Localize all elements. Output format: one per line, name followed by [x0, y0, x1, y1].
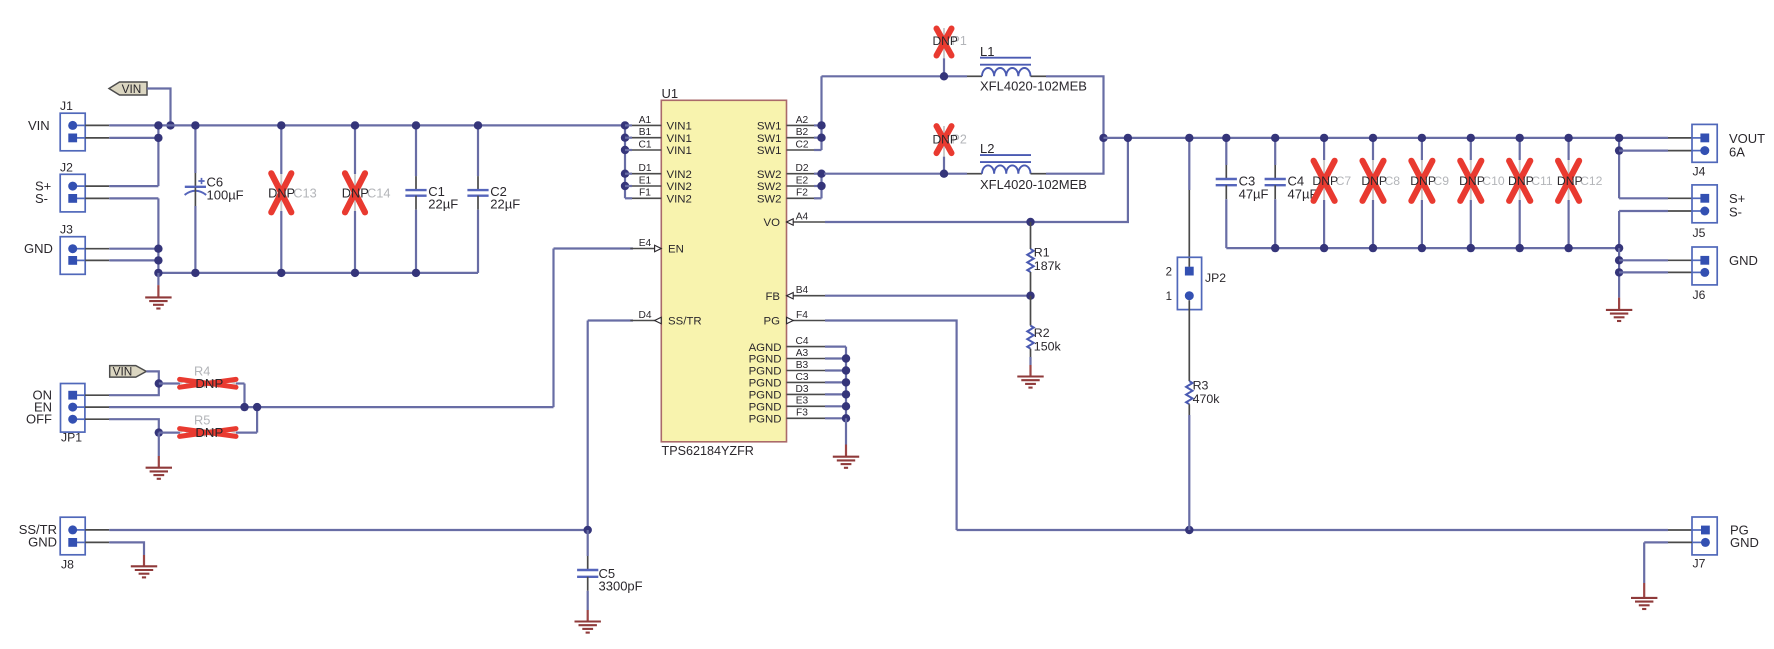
capacitor C14 (DNP) [342, 125, 391, 273]
ground J7 GND [1631, 598, 1657, 609]
wire output GND rail [1226, 247, 1619, 249]
U1 pin A3 PGND [749, 348, 825, 366]
node TP2 junction [940, 170, 948, 178]
svg-text:C3: C3 [795, 372, 808, 383]
wire J1 pin2 to junction [109, 137, 158, 139]
test point TP2 (DNP) [933, 126, 967, 174]
wire J3 pin2 stub [85, 259, 109, 261]
svg-text:E1: E1 [639, 175, 652, 186]
node J6 pin1 junction [1615, 256, 1623, 264]
svg-text:A3: A3 [796, 348, 809, 359]
node C4 bottom [1271, 244, 1279, 252]
node J3 pin2 junction [154, 256, 162, 264]
svg-text:B3: B3 [796, 360, 809, 371]
wire U1 VIN pin link y=186.0 [625, 185, 632, 187]
svg-text:DNP: DNP [1410, 174, 1436, 188]
node C11 bottom [1516, 244, 1524, 252]
wire J5 S+ stub [1668, 197, 1692, 199]
U1 pin A2 SW1 [757, 115, 818, 133]
node C11 top [1516, 134, 1524, 142]
node R1 top junction [1026, 218, 1034, 226]
svg-text:DNP: DNP [933, 133, 958, 147]
wire SW pin link y=125.4 [814, 124, 822, 126]
svg-text:VIN1: VIN1 [667, 145, 692, 157]
node J1 pin2 junction [154, 134, 162, 142]
node VIN flag junction [166, 121, 174, 129]
wire J2 S- stub [85, 197, 109, 199]
wire PGND pin link y=418.3 [825, 417, 846, 419]
wire PGND pin link y=382.4 [825, 381, 846, 383]
wire OFF to R5 node [109, 419, 159, 432]
node R5/EN junction [253, 403, 261, 411]
node J4 pin2 junction [1615, 146, 1623, 154]
wire L1 to VOUT node [1046, 76, 1104, 138]
svg-text:C11: C11 [1531, 174, 1553, 188]
svg-text:DNP: DNP [1312, 174, 1338, 188]
svg-text:6A: 6A [1729, 144, 1745, 159]
wire PG rail stub to J7 [1668, 529, 1692, 531]
wire PGND pin link y=406.3 [825, 405, 846, 407]
wire GND chain vertical [1618, 248, 1620, 298]
node OFF/R5/gnd junction [155, 428, 163, 436]
wire EN row [109, 406, 554, 408]
capacitor C4 47µF [1265, 138, 1318, 248]
svg-text:U1: U1 [662, 86, 679, 101]
wire VIN flag to bus [147, 89, 171, 126]
node C6 top [191, 121, 199, 129]
wire J8 GND to ground [109, 542, 144, 555]
wire J7 GND stub [1668, 541, 1692, 543]
svg-text:150k: 150k [1034, 339, 1062, 353]
wire SS/TR rail [109, 529, 588, 531]
svg-text:C12: C12 [1580, 174, 1603, 188]
svg-text:XFL4020-102MEB: XFL4020-102MEB [980, 78, 1087, 93]
wire R4 to EN row [243, 384, 245, 408]
U1 pin E2 SW2 [757, 175, 818, 193]
svg-text:C13: C13 [293, 186, 316, 201]
wire R5 to EN row [256, 407, 258, 433]
svg-text:DNP: DNP [342, 186, 369, 201]
svg-text:E4: E4 [639, 238, 652, 249]
wire J1 pin1 stub [85, 124, 109, 126]
wire J4 pin2 row [1619, 150, 1668, 152]
wire PGND pin link y=358.5 [825, 357, 846, 359]
node C10 bottom [1467, 244, 1475, 252]
resistor R1 187k [1027, 222, 1061, 296]
capacitor C3 47µF [1216, 138, 1269, 248]
node TP1 junction [940, 72, 948, 80]
node J6 pin2 junction [1615, 268, 1623, 276]
svg-text:B2: B2 [796, 127, 809, 138]
capacitor C12 (DNP) [1557, 138, 1603, 248]
svg-text:C10: C10 [1482, 174, 1505, 188]
node C12 bottom [1564, 244, 1572, 252]
connector J8 [60, 517, 85, 571]
capacitor C13 (DNP) [268, 125, 317, 273]
svg-text:VIN: VIN [122, 82, 142, 96]
svg-text:F4: F4 [796, 310, 808, 321]
svg-text:S-: S- [1729, 205, 1742, 220]
svg-text:PGND: PGND [749, 366, 782, 378]
svg-text:47µF: 47µF [1239, 186, 1269, 201]
svg-text:187k: 187k [1034, 259, 1062, 273]
resistor R4 (DNP) [159, 363, 245, 390]
node R3 bottom junction [1185, 526, 1193, 534]
svg-text:D1: D1 [638, 163, 651, 174]
U1 pin E4 EN [630, 238, 684, 256]
wire JP1 OFF stub [85, 418, 109, 420]
wire J8 GND stub [85, 541, 109, 543]
wire SW pin link y=137.7 [814, 137, 822, 139]
wire J3 pin1 stub [85, 248, 109, 250]
U1 pin C1 VIN1 [630, 139, 692, 157]
node PGND junction y=406.3 [842, 402, 850, 410]
wire PGND vertical [845, 347, 847, 419]
svg-text:OFF: OFF [26, 412, 52, 427]
U1 pin C4 AGND [749, 336, 825, 354]
svg-text:SW2: SW2 [757, 181, 782, 193]
node C6 bottom [191, 269, 199, 277]
U1 pin F3 PGND [749, 408, 825, 426]
capacitor C2 22µF [467, 125, 520, 273]
node VOUT inductor junction [1099, 134, 1107, 142]
svg-text:DNP: DNP [1361, 174, 1387, 188]
svg-text:22µF: 22µF [490, 197, 520, 212]
svg-text:E3: E3 [796, 396, 809, 407]
node VO loop junction [1124, 134, 1132, 142]
connector J4 [1692, 124, 1717, 178]
svg-text:S-: S- [35, 191, 48, 206]
svg-text:J4: J4 [1693, 165, 1706, 179]
wire EN net to U1 [554, 247, 634, 249]
wire J5 S- stub [1668, 210, 1692, 212]
svg-text:J1: J1 [60, 99, 73, 113]
svg-text:GND: GND [1730, 535, 1759, 550]
capacitor C7 (DNP) [1312, 138, 1351, 248]
svg-text:A2: A2 [796, 115, 809, 126]
wire J3 pin2 [109, 259, 158, 261]
svg-text:3300pF: 3300pF [599, 578, 643, 593]
connector J2 [60, 160, 85, 212]
U1 pin D2 SW2 [757, 163, 818, 181]
svg-text:A4: A4 [796, 211, 809, 222]
svg-text:F2: F2 [796, 188, 808, 199]
wire PG rail [957, 529, 1668, 531]
svg-text:C4: C4 [795, 336, 808, 347]
svg-text:SW1: SW1 [757, 145, 782, 157]
node C14 bottom [351, 269, 359, 277]
U1 pin C3 PGND [749, 372, 825, 390]
ground J8 GND [131, 566, 157, 577]
wire VIN-S+ vertical [157, 125, 159, 186]
connector J6 [1692, 247, 1717, 302]
U1 pin D4 SS/TR [630, 310, 701, 328]
svg-text:2: 2 [1166, 266, 1172, 278]
wire ON to VIN node [109, 384, 159, 396]
node C13 top [277, 121, 285, 129]
wire S- / GND vertical [157, 198, 159, 273]
wire JP1 ON stub [85, 394, 109, 396]
connector J7 [1692, 517, 1717, 571]
wire SW1 rail to L1 [822, 75, 968, 77]
wire VO sense loop [825, 138, 1128, 222]
ground R2 GND [1017, 377, 1043, 388]
svg-text:DNP: DNP [1459, 174, 1485, 188]
svg-text:22µF: 22µF [428, 197, 458, 212]
node C12 top [1564, 134, 1572, 142]
wire J6 pin2 row [1619, 271, 1668, 273]
svg-text:AGND: AGND [749, 342, 782, 354]
node SW1 junction y=125.4 [817, 121, 825, 129]
svg-text:VIN2: VIN2 [667, 194, 692, 206]
ground input GND [145, 297, 171, 308]
node VIN bus / sense junction [154, 121, 162, 129]
node C9 top [1418, 134, 1426, 142]
wire U1 VIN pin link y=173.7 [625, 173, 632, 175]
svg-text:R1: R1 [1034, 246, 1050, 260]
node VIN/R4/ON junction [155, 379, 163, 387]
inductor L1 XFL4020-102MEB [967, 44, 1087, 93]
wire J2 S+ stub [85, 185, 109, 187]
test point TP1 (DNP) [933, 28, 967, 76]
node C1 bottom [412, 269, 420, 277]
node FB junction [1026, 292, 1034, 300]
wire PGND pin link y=346.6 [825, 346, 846, 348]
svg-text:J5: J5 [1693, 226, 1706, 240]
resistor R5 (DNP) [159, 413, 257, 441]
wire PGND pin link y=370.5 [825, 369, 846, 371]
node U1 VIN pin junction y=173.7 [621, 170, 629, 178]
wire J3 pin1 [109, 248, 158, 250]
svg-text:PGND: PGND [749, 378, 782, 390]
wire U1 VIN vertical [624, 125, 626, 198]
wire L2 to VOUT node [1046, 138, 1104, 174]
net label VIN (bottom flag) [110, 365, 147, 379]
node C4 top [1271, 134, 1279, 142]
node C7 bottom [1320, 244, 1328, 252]
svg-text:L2: L2 [980, 141, 994, 156]
wire SS/TR to U1 pin [588, 319, 633, 321]
svg-text:A1: A1 [639, 115, 652, 126]
node C8 top [1369, 134, 1377, 142]
svg-text:J3: J3 [60, 223, 73, 237]
wire J6 pin1 stub [1668, 259, 1692, 261]
U1 pin C2 SW1 [757, 139, 818, 157]
U1 pin B3 PGND [749, 360, 825, 378]
svg-text:VIN1: VIN1 [667, 133, 692, 145]
svg-text:C1: C1 [638, 139, 651, 150]
connector JP2 [1166, 257, 1227, 309]
wire ground stub (input) [157, 273, 159, 285]
capacitor C6 [185, 125, 244, 273]
wire J7 GND row [1644, 541, 1668, 543]
node SW2 junction y=186.0 [817, 182, 825, 190]
node JP2 top junction [1185, 134, 1193, 142]
node C9 bottom [1418, 244, 1426, 252]
wire SW1 vertical [820, 76, 822, 150]
node U1 VIN pin junction y=186.0 [621, 182, 629, 190]
wire PGND to ground [845, 418, 847, 444]
capacitor C10 (DNP) [1459, 138, 1505, 248]
wire SS/TR vertical to U1 [587, 321, 589, 531]
svg-text:PG: PG [764, 316, 781, 328]
svg-text:DNP: DNP [195, 425, 223, 440]
wire J5 S- row [1619, 210, 1668, 212]
node C5 junction [584, 526, 592, 534]
wire SW pin link y=150.0 [814, 149, 822, 151]
ground output GND [1606, 310, 1632, 321]
U1 pin D3 PGND [749, 384, 825, 402]
wire S+ to vertical [109, 185, 158, 187]
wire SW pin link y=173.7 [814, 173, 822, 175]
svg-text:TPS62184YZFR: TPS62184YZFR [662, 444, 754, 458]
node C1 top [412, 121, 420, 129]
wire JP2 to R3 [1188, 300, 1190, 381]
svg-text:100µF: 100µF [207, 188, 244, 203]
capacitor C11 (DNP) [1508, 138, 1553, 248]
svg-text:PGND: PGND [749, 402, 782, 414]
svg-text:PGND: PGND [749, 414, 782, 426]
wire VOUT rail stub to J4 [1668, 137, 1692, 139]
net label VIN (top flag) [109, 82, 147, 96]
svg-text:C14: C14 [367, 186, 390, 201]
svg-text:B1: B1 [639, 127, 652, 138]
node C2 top [474, 121, 482, 129]
wire SW pin link y=198.3 [814, 197, 822, 199]
svg-text:GND: GND [24, 241, 53, 256]
node C10 top [1467, 134, 1475, 142]
U1 pin B4 FB [765, 285, 825, 303]
wire input GND rail [158, 272, 478, 274]
wire J6 pin2 stub [1668, 271, 1692, 273]
svg-text:EN: EN [668, 244, 684, 256]
node PGND junction y=394.4 [842, 390, 850, 398]
svg-text:J6: J6 [1693, 288, 1706, 302]
capacitor C8 (DNP) [1361, 138, 1400, 248]
svg-text:DNP: DNP [933, 34, 958, 48]
wire SW2 rail to L2 [824, 173, 967, 175]
wire JP1 EN stub [85, 406, 109, 408]
svg-text:L1: L1 [980, 44, 994, 59]
op-amp U1 TPS62184YZFR body [661, 100, 786, 442]
svg-text:SS/TR: SS/TR [668, 316, 702, 328]
U1 pin B2 SW1 [757, 127, 818, 145]
wire U1 VIN pin link y=137.7 [625, 137, 632, 139]
svg-text:470k: 470k [1193, 392, 1221, 406]
U1 pin A4 VO [764, 211, 825, 229]
svg-text:FB: FB [765, 291, 780, 303]
node PGND junction y=382.4 [842, 378, 850, 386]
ground C5 GND [575, 622, 601, 633]
U1 pin E1 VIN2 [630, 175, 692, 193]
wire VIN flag to R4 node [146, 371, 159, 383]
wire J7 GND vertical [1643, 542, 1645, 583]
U1 pin F4 PG [764, 310, 825, 328]
svg-text:B4: B4 [796, 285, 809, 296]
wire J8 SS/TR stub [85, 529, 109, 531]
svg-text:SW1: SW1 [757, 121, 782, 133]
wire J6 pin1 row [1619, 259, 1668, 261]
capacitor C5 3300pF [577, 530, 643, 610]
svg-text:J8: J8 [61, 557, 74, 571]
node U1 VIN bus junction [621, 121, 629, 129]
inductor L2 XFL4020-102MEB [967, 141, 1087, 192]
svg-text:F1: F1 [639, 188, 651, 199]
svg-text:PGND: PGND [749, 354, 782, 366]
svg-text:JP2: JP2 [1205, 271, 1226, 285]
svg-text:C2: C2 [795, 139, 808, 150]
svg-text:VIN: VIN [28, 118, 50, 133]
ground JP1 OFF GND [146, 468, 172, 479]
node C14 top [351, 121, 359, 129]
connector J5 [1692, 185, 1717, 240]
wire J4 branch vertical [1618, 138, 1620, 198]
wire U1 VIN pin link y=198.3 [625, 197, 632, 199]
wire U1 VIN pin link y=125.4 [625, 124, 632, 126]
U1 pin F1 VIN2 [630, 188, 692, 206]
svg-text:VIN2: VIN2 [667, 169, 692, 181]
resistor R2 150k [1027, 296, 1061, 365]
svg-text:R3: R3 [1193, 379, 1209, 393]
svg-text:DNP: DNP [1508, 174, 1534, 188]
wire R3 to PG rail [1188, 415, 1190, 530]
ground PGND [833, 457, 859, 468]
svg-text:D4: D4 [638, 310, 651, 321]
wire VOUT rail [1104, 137, 1669, 139]
node SW1 junction y=137.7 [817, 134, 825, 142]
wire FB line [825, 295, 1031, 297]
svg-text:E2: E2 [796, 175, 809, 186]
svg-text:SW1: SW1 [757, 133, 782, 145]
svg-text:PGND: PGND [749, 390, 782, 402]
svg-text:DNP: DNP [195, 376, 223, 391]
wire SW pin link y=186.0 [814, 185, 822, 187]
wire SW2 vertical [820, 174, 822, 199]
wire PG from U1 [825, 321, 957, 531]
node PGND junction y=358.5 [842, 354, 850, 362]
wire J4 pin2 stub [1668, 150, 1692, 152]
svg-text:JP1: JP1 [61, 431, 82, 445]
node input GND rail junction [154, 269, 162, 277]
U1 pin E3 PGND [749, 396, 825, 414]
node J4 branch top [1615, 134, 1623, 142]
node C3 top [1222, 134, 1230, 142]
wire S- to vertical [109, 197, 158, 199]
node PGND junction y=370.5 [842, 366, 850, 374]
wire EN net vertical [552, 249, 554, 408]
svg-text:DNP: DNP [268, 186, 295, 201]
wire VIN bus [109, 124, 625, 126]
wire PGND pin link y=394.4 [825, 393, 846, 395]
U1 pin F2 SW2 [757, 188, 818, 206]
node PGND junction y=418.3 [842, 414, 850, 422]
node C8 bottom [1369, 244, 1377, 252]
svg-text:D2: D2 [795, 163, 808, 174]
connector JP1 [61, 384, 85, 445]
node J3 pin1 junction [154, 245, 162, 253]
svg-text:VIN2: VIN2 [667, 181, 692, 193]
node SW2 junction y=173.7 [817, 170, 825, 178]
svg-text:SW2: SW2 [757, 194, 782, 206]
svg-text:VIN1: VIN1 [667, 121, 692, 133]
node R4/EN junction [240, 403, 248, 411]
node U1 VIN pin junction y=137.7 [621, 134, 629, 142]
node C7 top [1320, 134, 1328, 142]
connector J3 [60, 223, 85, 275]
capacitor C1 22µF [405, 125, 458, 273]
svg-text:R2: R2 [1034, 326, 1050, 340]
svg-text:GND: GND [1729, 253, 1758, 268]
